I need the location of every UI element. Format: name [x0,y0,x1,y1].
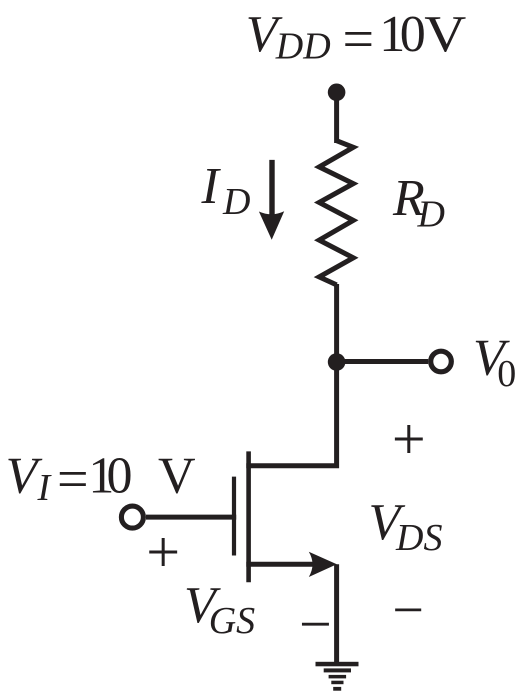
transistor source arrowhead [309,552,337,577]
svg-text:0: 0 [107,448,133,505]
svg-text:0: 0 [497,353,516,395]
terminal: V0 open circle [431,351,452,372]
svg-text:V: V [424,6,466,63]
wire: transistor source lead [246,562,314,567]
svg-text:V: V [158,448,196,505]
transistor Q1 channel line [246,451,251,582]
svg-text:GS: GS [209,600,255,642]
current arrow ID head [259,211,284,240]
wire: source to ground [334,564,339,663]
svg-text:−: − [299,592,332,657]
node: output junction dot [328,353,346,371]
svg-text:+: + [392,406,426,472]
resistor R_D zigzag [319,141,353,285]
current arrow ID shaft [269,160,274,215]
ground symbol [316,662,359,667]
svg-text:I: I [37,467,53,509]
node: VDD terminal dot [328,84,346,102]
svg-text:−: − [392,580,424,642]
svg-text:=: = [343,8,375,70]
svg-text:D: D [417,194,445,236]
wire: gate lead from VI terminal [146,515,236,520]
svg-text:D: D [222,181,250,223]
svg-text:0: 0 [400,6,426,63]
wire: resistor bottom to output node [334,284,339,363]
transistor Q1 gate bar [232,477,236,556]
svg-text:+: + [146,519,180,585]
svg-text:DD: DD [275,25,331,67]
svg-text:=: = [57,448,89,510]
svg-text:DS: DS [395,517,442,559]
wire: output node to V0 terminal [337,359,429,364]
wire: output node down to transistor drain [246,360,336,466]
terminal: VI open circle [121,506,143,528]
svg-text:I: I [201,158,222,215]
wire: VDD terminal to resistor top [334,92,339,143]
